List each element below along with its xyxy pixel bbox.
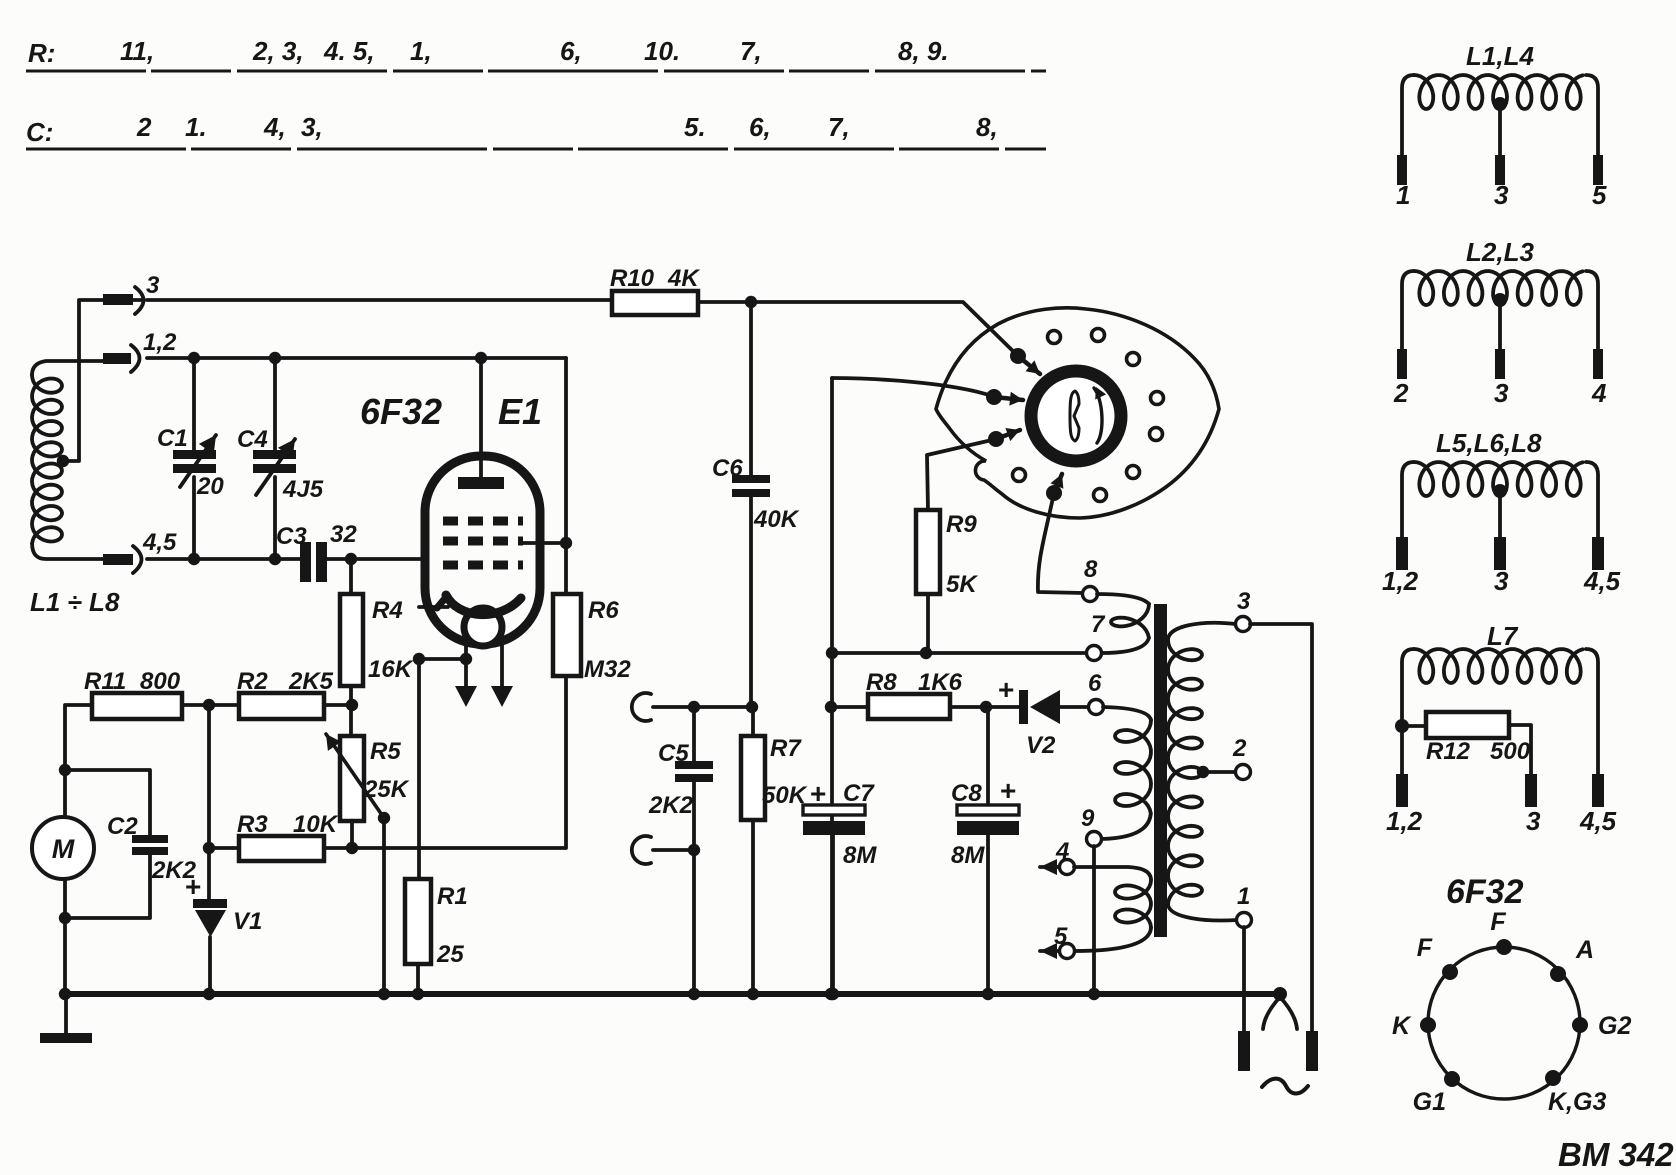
resistor R1 25 bbox=[417, 659, 421, 879]
tube cathode bbox=[446, 595, 521, 615]
svg-text:4,5: 4,5 bbox=[1579, 806, 1617, 836]
svg-text:8, 9.: 8, 9. bbox=[898, 36, 949, 66]
svg-text:C8: C8 bbox=[951, 780, 982, 807]
svg-text:5: 5 bbox=[1592, 180, 1607, 210]
pin G2 bbox=[1572, 1017, 1588, 1033]
svg-text:R4: R4 bbox=[372, 597, 403, 624]
svg-text:7,: 7, bbox=[828, 112, 850, 142]
svg-text:4: 4 bbox=[1591, 378, 1607, 408]
svg-text:25: 25 bbox=[436, 941, 464, 968]
tuning eye outline bbox=[936, 308, 1219, 518]
resistor R9 5K bbox=[916, 510, 940, 594]
svg-text:11,: 11, bbox=[120, 36, 154, 66]
svg-text:2K5: 2K5 bbox=[288, 668, 334, 695]
jack plug 1,2 bbox=[103, 353, 131, 364]
svg-text:7: 7 bbox=[1091, 611, 1106, 638]
terminal 8 bbox=[1083, 587, 1098, 602]
svg-text:5K: 5K bbox=[946, 571, 978, 598]
svg-text:800: 800 bbox=[140, 668, 181, 695]
svg-text:4J5: 4J5 bbox=[282, 476, 324, 503]
svg-text:16K: 16K bbox=[368, 656, 414, 683]
svg-text:4: 4 bbox=[1055, 838, 1069, 865]
svg-text:V1: V1 bbox=[233, 908, 262, 935]
svg-text:R12: R12 bbox=[1426, 738, 1471, 765]
svg-text:BM 342: BM 342 bbox=[1558, 1136, 1674, 1173]
resistor R10 4K bbox=[612, 291, 698, 315]
svg-text:C5: C5 bbox=[658, 740, 689, 767]
svg-text:R2: R2 bbox=[237, 668, 268, 695]
svg-text:3: 3 bbox=[146, 272, 160, 299]
resistor R8 1K6 bbox=[825, 701, 837, 713]
capacitor C3 32 bbox=[300, 542, 311, 582]
svg-text:R3: R3 bbox=[237, 811, 268, 838]
svg-text:40K: 40K bbox=[753, 506, 800, 533]
diode V2 bbox=[1019, 690, 1028, 724]
svg-text:C7: C7 bbox=[843, 780, 875, 807]
wire R3/R5 to R6 bottom bbox=[352, 676, 566, 848]
svg-text:+: + bbox=[998, 674, 1014, 705]
wire grid2 to R6 line bbox=[523, 541, 566, 545]
wire R10 to eye pin bbox=[751, 302, 1018, 356]
svg-text:C1: C1 bbox=[157, 425, 188, 452]
wire 1,2 rail bbox=[147, 356, 566, 360]
inductor L5,L6,L8 bbox=[1414, 462, 1583, 496]
capacitor C1 variable 20 bbox=[192, 358, 196, 452]
svg-text:M32: M32 bbox=[584, 656, 631, 683]
svg-text:10.: 10. bbox=[644, 36, 680, 66]
svg-text:3,: 3, bbox=[301, 112, 323, 142]
svg-text:1: 1 bbox=[1237, 883, 1250, 910]
svg-text:+: + bbox=[185, 871, 201, 902]
svg-text:4,: 4, bbox=[263, 112, 286, 142]
svg-text:6F32: 6F32 bbox=[360, 391, 442, 432]
resistor R3 10K bbox=[209, 846, 239, 850]
jack contact upper bbox=[632, 693, 651, 721]
resistor R11 800 bbox=[65, 705, 92, 817]
pin A bbox=[1550, 966, 1566, 982]
eye pin cathode bbox=[988, 431, 1004, 447]
svg-text:L5,L6,L8: L5,L6,L8 bbox=[1436, 428, 1542, 458]
svg-text:6: 6 bbox=[1088, 670, 1102, 697]
tube base pip bbox=[464, 608, 502, 646]
capacitor C4 variable 4J5 bbox=[273, 358, 277, 452]
tuning eye shadow lens bbox=[1070, 391, 1079, 441]
svg-text:R:: R: bbox=[28, 38, 55, 68]
svg-text:M: M bbox=[52, 834, 75, 864]
svg-text:K,G3: K,G3 bbox=[1548, 1088, 1606, 1116]
svg-text:10K: 10K bbox=[293, 811, 339, 838]
svg-text:L7: L7 bbox=[1487, 621, 1519, 651]
resistor R6 M32 bbox=[553, 594, 581, 676]
terminal 6 bbox=[1089, 700, 1104, 715]
tube 6F32 E1 envelope bbox=[425, 456, 540, 644]
svg-text:2: 2 bbox=[1393, 378, 1409, 408]
svg-text:V2: V2 bbox=[1026, 732, 1056, 759]
resistor R7 50K bbox=[746, 701, 758, 713]
ground symbol bbox=[64, 994, 68, 1034]
svg-text:6F32: 6F32 bbox=[1446, 873, 1524, 911]
terminal 4 arrow bbox=[1040, 859, 1057, 875]
svg-text:C6: C6 bbox=[712, 455, 743, 482]
inductor L7 bbox=[1414, 649, 1583, 683]
tube grids bbox=[443, 517, 523, 526]
winding 4-5 bbox=[1115, 880, 1151, 928]
svg-text:5.: 5. bbox=[684, 112, 706, 142]
svg-text:4. 5,: 4. 5, bbox=[323, 36, 375, 66]
svg-text:C:: C: bbox=[26, 117, 53, 147]
svg-text:7,: 7, bbox=[740, 36, 762, 66]
svg-text:3: 3 bbox=[1494, 566, 1509, 596]
terminal 7 bbox=[1087, 646, 1102, 661]
svg-text:G2: G2 bbox=[1598, 1012, 1631, 1040]
jack socket 3 bbox=[135, 287, 144, 314]
svg-text:1K6: 1K6 bbox=[918, 669, 963, 696]
plug pin right bbox=[1306, 1031, 1318, 1071]
svg-text:3: 3 bbox=[1494, 180, 1509, 210]
capacitor C7 8M bbox=[803, 805, 865, 815]
svg-text:8: 8 bbox=[1084, 556, 1098, 583]
parts table row R bbox=[26, 36, 1046, 149]
svg-text:20: 20 bbox=[196, 473, 224, 500]
fork contact bbox=[1273, 987, 1287, 1001]
svg-text:+: + bbox=[810, 778, 826, 809]
terminal 1 bbox=[1237, 913, 1252, 928]
svg-text:4,5: 4,5 bbox=[1583, 566, 1621, 596]
svg-text:3: 3 bbox=[1237, 588, 1251, 615]
svg-text:R1: R1 bbox=[437, 883, 468, 910]
jack contact lower bbox=[632, 836, 651, 864]
svg-text:R9: R9 bbox=[946, 511, 977, 538]
svg-text:8,: 8, bbox=[976, 112, 998, 142]
svg-text:G1: G1 bbox=[1413, 1088, 1446, 1116]
terminal 3 bbox=[1236, 617, 1251, 632]
pin K,G3 bbox=[1545, 1070, 1561, 1086]
svg-text:50K: 50K bbox=[762, 782, 808, 809]
svg-text:1,: 1, bbox=[410, 36, 432, 66]
terminal 5 arrow bbox=[1040, 943, 1057, 959]
transformer core bbox=[1154, 604, 1167, 937]
eye pin grid bbox=[986, 389, 1002, 405]
svg-text:3: 3 bbox=[1494, 378, 1509, 408]
svg-text:C2: C2 bbox=[107, 813, 138, 840]
svg-text:+: + bbox=[1000, 775, 1016, 806]
resistor R5 25K potentiometer bbox=[340, 736, 364, 821]
svg-text:9: 9 bbox=[1081, 805, 1095, 832]
terminal 9 bbox=[1087, 832, 1102, 847]
ground rail bbox=[65, 991, 1280, 997]
plug pin left bbox=[1238, 1031, 1250, 1071]
tube anode plate bbox=[479, 358, 483, 480]
svg-text:3: 3 bbox=[1526, 806, 1541, 836]
svg-text:L2,L3: L2,L3 bbox=[1466, 237, 1534, 267]
capacitor C2 2K2 bbox=[65, 770, 150, 835]
eye pin heater bbox=[1046, 485, 1062, 501]
svg-text:F: F bbox=[1417, 934, 1433, 962]
secondary winding bbox=[1168, 640, 1202, 905]
jack plug 4,5 bbox=[103, 554, 133, 565]
inductor L1-L8 antenna coil bbox=[32, 375, 62, 543]
wire 4,5 rail bbox=[147, 557, 302, 561]
svg-text:K: K bbox=[1392, 1012, 1412, 1040]
wire screen row bbox=[832, 651, 1087, 655]
svg-text:25K: 25K bbox=[363, 776, 410, 803]
svg-text:1,2: 1,2 bbox=[1386, 806, 1423, 836]
svg-text:L1,L4: L1,L4 bbox=[1466, 41, 1534, 71]
svg-text:F: F bbox=[1490, 908, 1506, 936]
wire tap 3 bbox=[104, 298, 144, 302]
svg-text:R10: R10 bbox=[610, 265, 655, 292]
svg-text:1.: 1. bbox=[185, 112, 207, 142]
eye pin anode bbox=[1010, 348, 1026, 364]
capacitor C5 2K2 bbox=[692, 707, 696, 762]
wire terminal 3 to plug bbox=[1250, 624, 1312, 1031]
resistor R4 16K bbox=[349, 559, 353, 594]
winding 8-7 bbox=[1111, 604, 1149, 638]
svg-text:32: 32 bbox=[330, 521, 357, 548]
svg-text:C3: C3 bbox=[276, 523, 307, 550]
svg-text:A: A bbox=[1575, 936, 1594, 964]
meter M bbox=[32, 817, 94, 879]
svg-text:E1: E1 bbox=[498, 391, 542, 432]
AC symbol bbox=[1262, 1079, 1308, 1094]
wire cathode junction bbox=[419, 657, 466, 661]
inductor L2,L3 bbox=[1414, 271, 1583, 305]
svg-text:1,2: 1,2 bbox=[1382, 566, 1419, 596]
wire to eye grid pin bbox=[832, 378, 992, 396]
svg-text:4,5: 4,5 bbox=[142, 529, 177, 556]
tube heater pins bbox=[464, 643, 468, 688]
svg-text:8M: 8M bbox=[951, 842, 985, 869]
svg-text:L1 ÷ L8: L1 ÷ L8 bbox=[30, 587, 120, 617]
svg-text:R8: R8 bbox=[866, 669, 897, 696]
pin K bbox=[1420, 1017, 1436, 1033]
svg-text:C4: C4 bbox=[237, 426, 268, 453]
wire terminal 1 to plug bbox=[1242, 927, 1246, 1031]
diode V1 bbox=[207, 705, 211, 901]
svg-text:4K: 4K bbox=[667, 265, 700, 292]
capacitor C6 40K bbox=[749, 302, 753, 477]
pin F bbox=[1442, 964, 1458, 980]
svg-text:2, 3,: 2, 3, bbox=[252, 36, 304, 66]
wire B+ vertical bbox=[830, 378, 834, 994]
resistor R12 500 bbox=[1402, 724, 1426, 728]
winding 6-9 bbox=[1115, 720, 1151, 813]
svg-text:R5: R5 bbox=[370, 738, 401, 765]
wire eye heater to terminal 8 bbox=[1038, 493, 1083, 593]
svg-text:1,2: 1,2 bbox=[143, 329, 177, 356]
tuning eye target ring bbox=[1031, 371, 1121, 461]
svg-text:6,: 6, bbox=[560, 36, 582, 66]
svg-text:1: 1 bbox=[1396, 180, 1410, 210]
svg-text:500: 500 bbox=[1490, 738, 1531, 765]
wire E1 anode line bbox=[564, 358, 568, 594]
inductor L1,L4 bbox=[1414, 75, 1583, 109]
secondary tap 2 bbox=[1197, 766, 1209, 778]
svg-text:2K2: 2K2 bbox=[648, 792, 694, 819]
svg-text:R6: R6 bbox=[588, 597, 619, 624]
svg-text:8M: 8M bbox=[843, 842, 877, 869]
tuning eye pin holes bbox=[1048, 331, 1061, 344]
svg-text:2: 2 bbox=[1232, 735, 1247, 762]
resistor R2 2K5 bbox=[239, 693, 324, 719]
wire plug3 to R10 bbox=[147, 298, 612, 302]
capacitor C8 8M bbox=[986, 707, 990, 805]
svg-text:R11: R11 bbox=[84, 668, 126, 695]
svg-text:5: 5 bbox=[1054, 923, 1068, 950]
svg-text:R7: R7 bbox=[770, 735, 802, 762]
svg-text:2: 2 bbox=[136, 112, 152, 142]
pin G1 bbox=[1444, 1071, 1460, 1087]
pin F bbox=[1496, 939, 1512, 955]
svg-text:6,: 6, bbox=[749, 112, 771, 142]
